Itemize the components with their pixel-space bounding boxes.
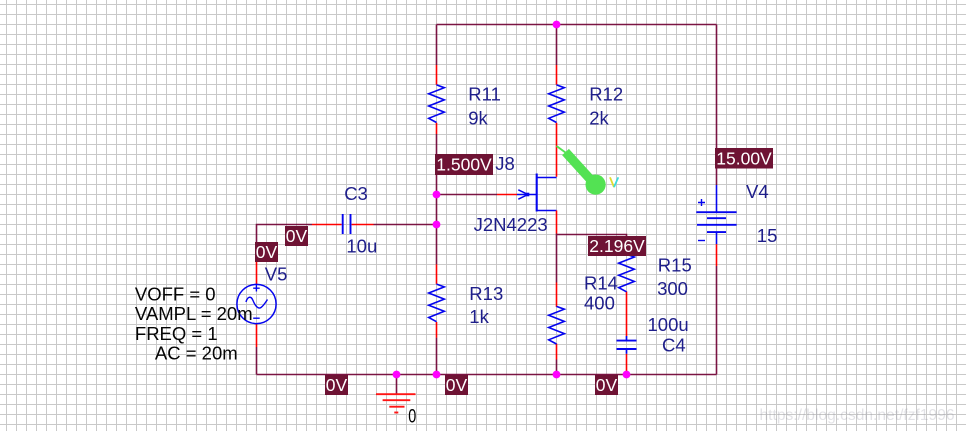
junction dot C4 bottom xyxy=(623,371,631,379)
wire V5 bottom xyxy=(256,347,258,375)
svg-text:VOFF = 0: VOFF = 0 xyxy=(135,283,216,304)
svg-text:300: 300 xyxy=(657,278,688,299)
wire bottom rail xyxy=(257,374,717,376)
svg-text:0V: 0V xyxy=(286,226,308,246)
probe marker (green) xyxy=(557,146,606,195)
wire gate xyxy=(437,194,498,196)
svg-text:R13: R13 xyxy=(469,283,503,304)
junction dot top rail xyxy=(553,21,561,29)
svg-text:J8: J8 xyxy=(495,153,515,174)
svg-text:0V: 0V xyxy=(446,375,468,395)
svg-text:J2N4223: J2N4223 xyxy=(474,214,548,235)
transistor J8 JFET J2N4223 xyxy=(497,174,557,234)
wire V4 to bottom rail xyxy=(716,266,718,375)
resistor R13 xyxy=(429,264,445,337)
probe V marker label xyxy=(610,177,618,187)
bias label 0V (bottom right) xyxy=(595,375,618,395)
wire source elbow xyxy=(557,234,627,247)
svg-text:R14: R14 xyxy=(584,273,618,294)
bias label 0V (bottom left) xyxy=(325,375,348,395)
svg-text:R15: R15 xyxy=(658,255,692,276)
resistor R14 xyxy=(549,283,565,360)
svg-text:0V: 0V xyxy=(596,375,618,395)
wire source to R14 xyxy=(556,235,558,283)
capacitor C4 xyxy=(617,336,637,375)
svg-text:R11: R11 xyxy=(468,84,501,105)
svg-text:0V: 0V xyxy=(326,375,348,395)
svg-text:https://blog.csdn.net/fzf1996: https://blog.csdn.net/fzf1996 xyxy=(760,407,955,424)
resistor R11 xyxy=(429,65,445,134)
bias label 2.196V xyxy=(588,236,646,256)
svg-text:0: 0 xyxy=(408,405,416,427)
svg-text:2.196V: 2.196V xyxy=(589,236,645,256)
junction dot R14 bottom xyxy=(553,371,561,379)
svg-text:15: 15 xyxy=(757,225,778,246)
wire top rail xyxy=(437,24,717,26)
wire left branch lower xyxy=(436,338,438,375)
wire middle branch upper xyxy=(556,25,558,66)
ground 0 symbol xyxy=(376,375,416,413)
wire C3 to gate node xyxy=(374,224,437,226)
svg-text:V5: V5 xyxy=(265,263,288,284)
svg-text:V4: V4 xyxy=(746,181,769,202)
resistor R12 xyxy=(549,65,565,177)
svg-text:C4: C4 xyxy=(662,334,686,355)
svg-text:0V: 0V xyxy=(256,242,278,262)
svg-text:100u: 100u xyxy=(648,314,689,335)
svg-text:15.00V: 15.00V xyxy=(716,149,772,169)
bias label 1.500V xyxy=(435,154,493,175)
capacitor C3 xyxy=(312,214,374,234)
junction dot gate node xyxy=(433,191,441,199)
source V4 (VDC battery) xyxy=(696,185,736,266)
junction dot C3 node xyxy=(433,221,441,229)
svg-text:C3: C3 xyxy=(344,183,368,204)
wire V5 to C3 xyxy=(257,225,313,251)
svg-text:AC = 20m: AC = 20m xyxy=(155,343,238,364)
wire left branch upper xyxy=(436,25,438,66)
resistor R15 xyxy=(619,246,635,336)
svg-text:1.500V: 1.500V xyxy=(436,155,492,175)
svg-text:VAMPL = 20m: VAMPL = 20m xyxy=(135,303,253,324)
svg-text:400: 400 xyxy=(584,292,615,313)
source V5 (VSIN) xyxy=(237,250,276,347)
bias label 0V (V5 top b) xyxy=(255,242,278,262)
svg-text:FREQ = 1: FREQ = 1 xyxy=(135,323,218,344)
wire R14 to bottom rail xyxy=(556,360,558,375)
bias label 0V (V5 top a) xyxy=(285,226,308,246)
wire right branch xyxy=(716,25,718,186)
svg-text:2k: 2k xyxy=(589,107,609,128)
svg-text:1k: 1k xyxy=(469,306,489,327)
bias label 0V (bottom middle) xyxy=(445,375,468,395)
bias label 15.00V xyxy=(715,148,773,169)
wire left branch middle xyxy=(436,134,438,264)
junction dot R13 bottom xyxy=(433,371,441,379)
svg-text:R12: R12 xyxy=(589,84,623,105)
svg-text:9k: 9k xyxy=(468,107,488,128)
junction dot ground xyxy=(393,371,401,379)
svg-text:10u: 10u xyxy=(346,235,377,256)
